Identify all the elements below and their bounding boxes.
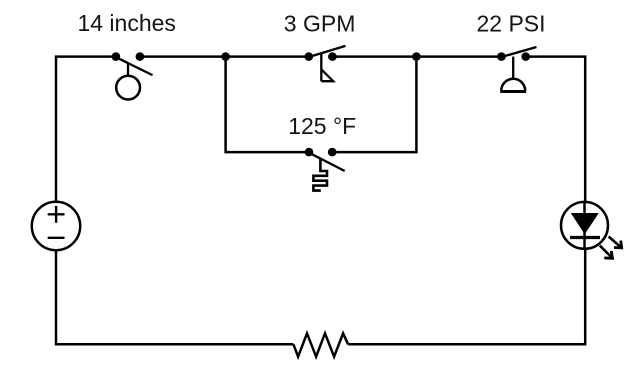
svg-text:125 °F: 125 °F <box>288 113 356 139</box>
resistor R1 <box>293 333 348 356</box>
temperature switch S4 (125 F) <box>305 148 345 191</box>
voltage source V1 <box>32 202 80 250</box>
wire branch left vertical <box>226 57 309 153</box>
level switch S1 (14 inches) <box>112 52 153 99</box>
wire top segment 3 (flow switch to pressure switch, through node B) <box>332 55 501 58</box>
wire top segment 2 (level switch to flow switch, through node A) <box>140 55 309 58</box>
pressure switch S3 (22 PSI) <box>497 47 536 92</box>
wire top segment 1 (left corner to level switch) <box>56 57 116 202</box>
node A (branch junction left) <box>221 52 230 61</box>
wire bottom right (resistor to right corner) <box>348 249 585 344</box>
svg-text:22 PSI: 22 PSI <box>476 11 545 37</box>
wire left lower (source to bottom corner) <box>56 250 293 344</box>
svg-text:3 GPM: 3 GPM <box>284 11 356 37</box>
LED D1 <box>561 202 622 258</box>
node B (branch junction right) <box>412 52 421 61</box>
flow switch S2 (3 GPM) <box>305 46 346 81</box>
wire top segment 4 (pressure switch to right corner) <box>526 57 586 202</box>
svg-text:14 inches: 14 inches <box>77 10 175 36</box>
wire branch right vertical <box>332 57 416 153</box>
